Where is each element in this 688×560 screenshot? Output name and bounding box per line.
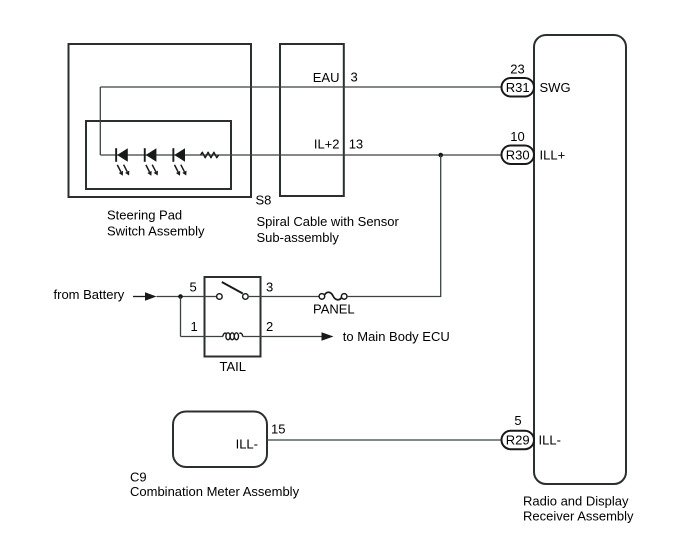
wire: EAU branch vertical inside steering box [99, 87, 101, 155]
arrow: to Main Body ECU [322, 332, 334, 341]
wire: relay internal pin5 to contact [205, 296, 217, 298]
box: Radio and Display Receiver Assembly [534, 35, 626, 484]
svg-text:from Battery: from Battery [54, 287, 125, 302]
wire: into relay pin 1 [181, 336, 205, 338]
node: junction of ILL+ net and PANEL branch [438, 153, 443, 158]
switch contact (left) [217, 294, 223, 300]
connector R29 (pin 5) [502, 431, 535, 450]
svg-text:R31: R31 [506, 80, 530, 95]
resistor (LED current limiting) [201, 152, 219, 158]
svg-text:C9: C9 [130, 470, 147, 485]
wire: relay pin 2 coil line to ECU arrow [205, 336, 323, 338]
switch blade (open) [222, 282, 243, 294]
connector R31 (pin 23) [502, 78, 535, 97]
svg-text:PANEL: PANEL [313, 302, 355, 317]
box: TAIL relay [205, 277, 261, 357]
svg-text:ILL-: ILL- [539, 433, 561, 448]
wire: branch down to pin 1 [180, 297, 182, 337]
box: C9 Combination Meter Assembly [173, 412, 267, 468]
fuse PANEL element (wave) [325, 292, 342, 300]
wire: ILL- net (meter to R29) [267, 439, 502, 441]
svg-text:SWG: SWG [540, 80, 571, 95]
svg-text:EAU: EAU [313, 70, 340, 85]
node: junction battery feed / TAIL coil branch [178, 294, 183, 299]
box: Steering Pad Switch Assembly outer [69, 44, 252, 197]
wire: PANEL branch vertical [440, 155, 442, 297]
svg-text:2: 2 [266, 319, 273, 334]
svg-text:TAIL: TAIL [220, 359, 247, 374]
svg-text:to Main Body ECU: to Main Body ECU [343, 329, 450, 344]
svg-text:5: 5 [514, 413, 521, 428]
svg-text:Spiral Cable with Sensor: Spiral Cable with Sensor [257, 214, 400, 229]
wire: from Battery feed (arrow shaft) [133, 296, 146, 298]
connector R30 (pin 10) [502, 146, 535, 165]
LED D1 [115, 148, 129, 176]
svg-text:15: 15 [271, 422, 285, 437]
wire: IL+2 / ILL+ net horizontal (LED string to R30) [100, 154, 501, 156]
svg-text:Switch Assembly: Switch Assembly [107, 223, 205, 238]
svg-text:S8: S8 [256, 193, 272, 208]
svg-text:1: 1 [191, 319, 198, 334]
svg-text:10: 10 [510, 129, 524, 144]
inductor: TAIL relay coil [223, 333, 243, 340]
box: S8 Spiral Cable with Sensor Sub-assembly [280, 44, 344, 196]
wire: fuse to ILL+ junction riser [347, 296, 441, 298]
wire: EAU net horizontal (steering box to R31) [100, 86, 501, 88]
fuse PANEL terminal left [319, 294, 325, 300]
svg-text:Sub-assembly: Sub-assembly [257, 230, 340, 245]
svg-text:Combination Meter Assembly: Combination Meter Assembly [130, 484, 300, 499]
svg-text:R30: R30 [506, 147, 530, 162]
svg-text:R29: R29 [506, 433, 530, 448]
svg-text:3: 3 [351, 70, 358, 85]
box: LED sub-board inner [86, 121, 231, 189]
LED D2 [144, 148, 158, 176]
svg-text:IL+2: IL+2 [314, 137, 340, 152]
LED D3 [172, 148, 186, 176]
svg-text:Steering Pad: Steering Pad [107, 207, 182, 222]
svg-text:Receiver Assembly: Receiver Assembly [523, 509, 634, 524]
wire: battery feed to relay pin 5 [157, 296, 205, 298]
svg-text:Radio and Display: Radio and Display [523, 494, 629, 509]
svg-text:3: 3 [266, 280, 273, 295]
wire: contact to relay pin 3 and on to fuse [248, 296, 319, 298]
svg-text:ILL-: ILL- [236, 437, 258, 452]
svg-text:13: 13 [349, 137, 363, 152]
svg-text:23: 23 [510, 62, 524, 77]
arrow: from Battery [145, 292, 157, 301]
switch contact (right) [243, 294, 249, 300]
svg-text:5: 5 [190, 280, 197, 295]
fuse PANEL terminal right [341, 294, 347, 300]
svg-text:ILL+: ILL+ [540, 147, 566, 162]
